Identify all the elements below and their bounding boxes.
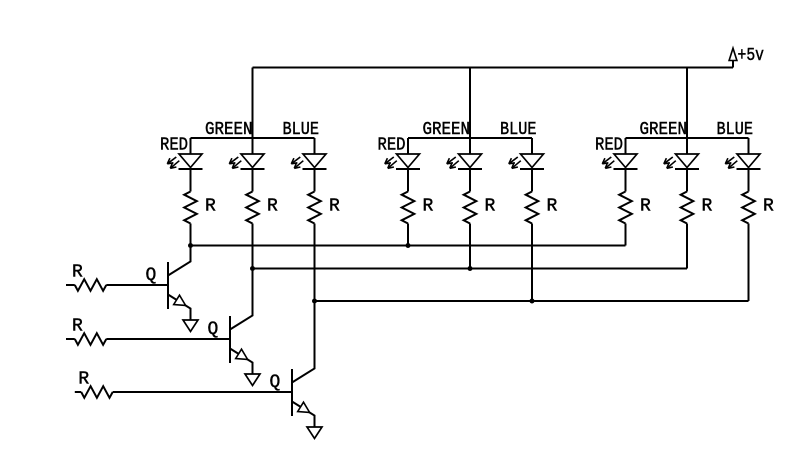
junction dot green bus / D2 / Q2 collector: [250, 266, 255, 271]
label GREEN (group 2): [423, 120, 471, 140]
label RED (group 2): [378, 136, 406, 156]
LED D3 BLUE (group 1): [291, 138, 326, 169]
ground (Q3 emitter): [307, 427, 322, 439]
svg-text:R: R: [329, 197, 340, 217]
wire red bus (node RED-SINK): [191, 245, 626, 247]
wire LED D7 cathode to resistor: [625, 169, 627, 192]
label Q3: [270, 373, 281, 393]
resistor R (LED D1 current limit): [184, 192, 197, 224]
label BLUE (group 1): [283, 120, 320, 140]
svg-text:R: R: [72, 317, 83, 337]
resistor R (LED D8 current limit): [681, 192, 694, 224]
label R (LED D4 resistor): [423, 197, 434, 217]
wire LED D4 cathode to resistor: [407, 169, 409, 192]
label R (LED D8 resistor): [702, 197, 713, 217]
svg-text:R: R: [485, 197, 496, 217]
svg-text:GREEN: GREEN: [205, 120, 253, 140]
wire top +5v rail: [253, 67, 734, 69]
label R (Q2 base resistor): [72, 317, 83, 337]
wire resistor to red bus: [190, 224, 192, 246]
junction dot blue bus / D6: [530, 299, 535, 304]
junction dot red bus / D4: [406, 243, 411, 248]
LED D1 RED (group 1): [167, 138, 202, 169]
power symbol +5v: [729, 46, 764, 68]
resistor R (LED D7 current limit): [619, 192, 632, 224]
wire resistor to blue bus: [748, 224, 750, 302]
wire group 2 anode bus: [408, 137, 532, 139]
svg-text:R: R: [205, 197, 216, 217]
label GREEN (group 1): [205, 120, 253, 140]
svg-text:RED: RED: [160, 136, 188, 156]
wire LED D2 cathode to resistor: [252, 169, 254, 192]
wire Q1 base: [106, 284, 168, 286]
label R (Q1 base resistor): [72, 263, 83, 283]
svg-text:R: R: [267, 197, 278, 217]
ground (Q1 emitter): [183, 320, 198, 332]
wire LED D5 cathode to resistor: [469, 169, 471, 192]
label BLUE (group 2): [500, 120, 537, 140]
resistor R (LED D6 current limit): [526, 192, 539, 224]
wire Q3 base input lead: [75, 391, 81, 393]
svg-text:Q: Q: [270, 373, 281, 393]
wire Q2 base input lead: [66, 338, 75, 340]
ground (Q2 emitter): [245, 374, 260, 386]
label GREEN (group 3): [640, 120, 688, 140]
wire rail drop to group 3 anode bus: [686, 68, 688, 139]
svg-text:Q: Q: [146, 266, 157, 286]
resistor R (LED D3 current limit): [308, 192, 321, 224]
wire resistor to blue bus: [531, 224, 533, 302]
label R (LED D1 resistor): [205, 197, 216, 217]
label R (LED D6 resistor): [547, 197, 558, 217]
transistor Q2 (bar and collector to bus): [230, 269, 253, 364]
wire resistor to blue bus: [314, 224, 316, 302]
wire LED D3 cathode to resistor: [314, 169, 316, 192]
resistor R (LED D5 current limit): [464, 192, 477, 224]
wire resistor to red bus: [407, 224, 409, 246]
transistor Q1 (bar and collector to bus): [168, 246, 191, 310]
wire LED D6 cathode to resistor: [531, 169, 533, 192]
LED D6 BLUE (group 2): [509, 138, 544, 169]
LED D4 RED (group 2): [385, 138, 420, 169]
resistor R (LED D2 current limit): [246, 192, 259, 224]
svg-text:R: R: [640, 197, 651, 217]
resistor R (Q2 base): [75, 333, 107, 345]
wire green bus (node GREEN-SINK): [253, 268, 688, 270]
wire blue bus (node BLUE-SINK): [315, 300, 749, 302]
label R (Q3 base resistor): [78, 370, 89, 390]
svg-text:R: R: [547, 197, 558, 217]
wire LED D1 cathode to resistor: [190, 169, 192, 192]
wire resistor to green bus: [686, 224, 688, 269]
wire Q1 base input lead: [66, 284, 75, 286]
label R (LED D9 resistor): [763, 197, 774, 217]
label Q2: [208, 320, 219, 340]
label R (LED D7 resistor): [640, 197, 651, 217]
transistor Q3 (bar and collector to bus): [292, 301, 315, 416]
svg-text:GREEN: GREEN: [423, 120, 471, 140]
svg-text:RED: RED: [595, 136, 623, 156]
svg-text:BLUE: BLUE: [717, 120, 754, 140]
LED D2 GREEN (group 1): [229, 138, 264, 169]
svg-text:RED: RED: [378, 136, 406, 156]
label BLUE (group 3): [717, 120, 754, 140]
LED D7 RED (group 3): [602, 138, 637, 169]
LED D8 GREEN (group 3): [664, 138, 699, 169]
svg-text:R: R: [72, 263, 83, 283]
svg-text:GREEN: GREEN: [640, 120, 688, 140]
svg-text:Q: Q: [208, 320, 219, 340]
wire Q3 base: [113, 391, 292, 393]
svg-text:BLUE: BLUE: [500, 120, 537, 140]
label RED (group 3): [595, 136, 623, 156]
label R (LED D3 resistor): [329, 197, 340, 217]
junction dot red bus / D1 / Q1 collector: [188, 243, 193, 248]
svg-text:+5v: +5v: [738, 46, 765, 66]
wire resistor to green bus: [469, 224, 471, 269]
wire LED D8 cathode to resistor: [686, 169, 688, 192]
resistor R (Q1 base): [75, 279, 107, 291]
LED D9 BLUE (group 3): [725, 138, 760, 169]
resistor R (Q3 base): [81, 386, 113, 398]
junction dot blue bus / D3 / Q3 collector: [312, 299, 317, 304]
wire group 3 anode bus: [626, 137, 749, 139]
wire resistor to red bus: [625, 224, 627, 246]
wire LED D9 cathode to resistor: [748, 169, 750, 192]
svg-text:R: R: [423, 197, 434, 217]
svg-text:R: R: [78, 370, 89, 390]
label R (LED D5 resistor): [485, 197, 496, 217]
svg-text:BLUE: BLUE: [283, 120, 320, 140]
wire rail drop to group 1 anode bus: [252, 68, 254, 139]
transistor Q3 emitter with arrow: [292, 402, 315, 428]
label RED (group 1): [160, 136, 188, 156]
wire Q2 base: [106, 338, 230, 340]
LED D5 GREEN (group 2): [447, 138, 482, 169]
svg-text:R: R: [763, 197, 774, 217]
wire resistor to green bus: [252, 224, 254, 269]
transistor Q2 emitter with arrow: [230, 349, 253, 375]
junction dot green bus / D5: [468, 266, 473, 271]
resistor R (LED D4 current limit): [402, 192, 415, 224]
label R (LED D2 resistor): [267, 197, 278, 217]
wire group 1 anode bus: [191, 137, 315, 139]
svg-text:R: R: [702, 197, 713, 217]
wire rail drop to group 2 anode bus: [469, 68, 471, 139]
transistor Q1 emitter with arrow: [168, 295, 191, 321]
label Q1: [146, 266, 157, 286]
resistor R (LED D9 current limit): [742, 192, 755, 224]
